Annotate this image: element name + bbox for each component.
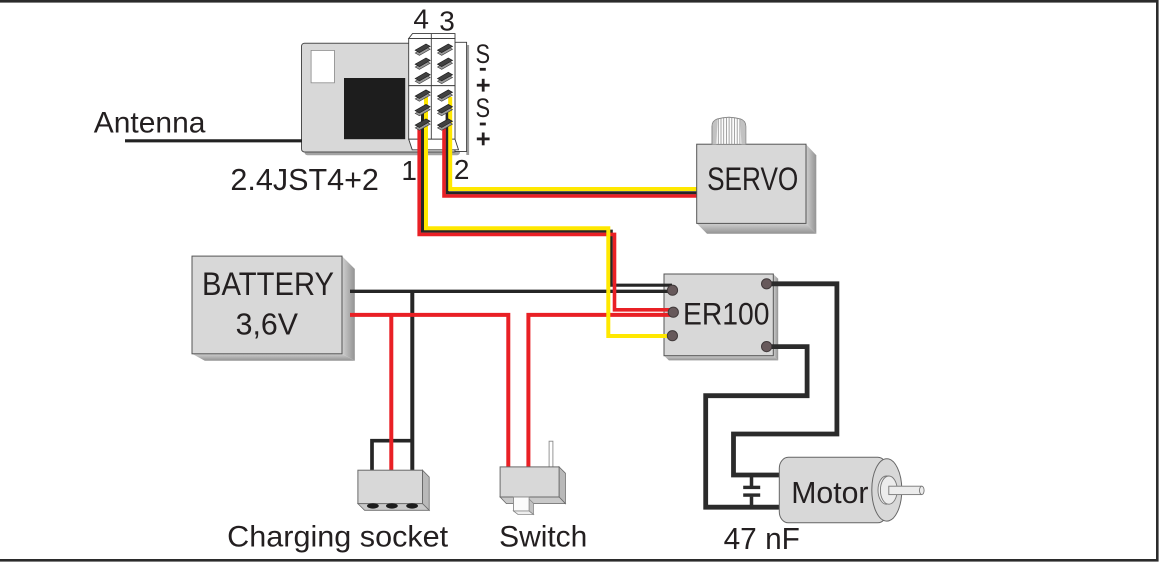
ER100 controller U2 body xyxy=(664,274,778,360)
svg-text:SERVO: SERVO xyxy=(707,161,798,197)
motor M1 body xyxy=(779,457,924,523)
connector pins grid xyxy=(415,44,452,130)
wire black jumper at charging socket xyxy=(372,441,412,471)
receiver chip xyxy=(344,78,405,139)
label minus (pin1) xyxy=(480,123,486,126)
wire receiver pin2 red to servo xyxy=(444,127,699,197)
wire red branch to charging socket xyxy=(389,315,393,471)
svg-text:BATTERY: BATTERY xyxy=(202,266,334,302)
label minus (pin3) xyxy=(480,68,486,71)
capacitor C1 47nF xyxy=(743,475,760,507)
svg-text:Switch: Switch xyxy=(499,520,587,553)
connector back panel xyxy=(455,42,469,155)
svg-text:2.4JST4+2: 2.4JST4+2 xyxy=(230,162,379,197)
wire ER100 to motor upper black xyxy=(734,284,837,475)
ER100 terminal bottom-right xyxy=(762,342,772,352)
wire receiver pin2 yellow to servo xyxy=(450,97,699,189)
svg-text:3: 3 xyxy=(439,6,455,37)
svg-text:ER100: ER100 xyxy=(683,295,770,331)
ER100 terminal top-left xyxy=(667,285,677,295)
label plus (pin3) xyxy=(477,79,490,92)
switch S1 body xyxy=(500,441,565,514)
charging socket J1 body xyxy=(358,470,429,510)
wire receiver pin2 black to servo xyxy=(447,112,699,193)
battery BT1 body xyxy=(192,256,355,361)
servo M2 body xyxy=(697,144,817,234)
ER100 terminal top-right xyxy=(762,279,772,289)
wire red switch to ER100 xyxy=(528,315,672,468)
receiver sticker xyxy=(311,50,334,82)
connector housing upper (pins 4,3) xyxy=(409,34,455,86)
wire receiver pin1 yellow to ER100 xyxy=(426,97,670,336)
label plus (pin1) xyxy=(477,133,490,146)
svg-text:1: 1 xyxy=(401,155,417,186)
svg-text:47 nF: 47 nF xyxy=(724,522,800,556)
ER100 terminal bottom-left xyxy=(667,331,677,341)
wire battery negative black to ER100 xyxy=(350,290,672,293)
svg-text:3,6V: 3,6V xyxy=(236,307,299,342)
servo knob xyxy=(712,117,746,144)
svg-text:2: 2 xyxy=(454,154,470,185)
svg-text:4: 4 xyxy=(413,4,429,35)
ER100 terminal mid-left xyxy=(668,307,678,317)
svg-text:Charging socket: Charging socket xyxy=(227,520,449,553)
antenna wire xyxy=(125,139,302,142)
svg-text:Antenna: Antenna xyxy=(94,106,206,139)
connector housing lower (pins 1,2) xyxy=(409,86,459,150)
svg-text:Motor: Motor xyxy=(791,476,868,510)
wire receiver pin1 red to ER100 xyxy=(419,127,672,310)
svg-text:S: S xyxy=(476,93,491,123)
svg-text:S: S xyxy=(476,39,491,69)
wire black branch to charging socket xyxy=(410,291,414,471)
wire receiver pin1 black to ER100 xyxy=(423,112,672,285)
wire battery positive red to switch xyxy=(350,315,508,468)
wire ER100 to motor lower black xyxy=(706,347,807,508)
receiver U1 2.4JST4+2 body xyxy=(302,43,461,155)
